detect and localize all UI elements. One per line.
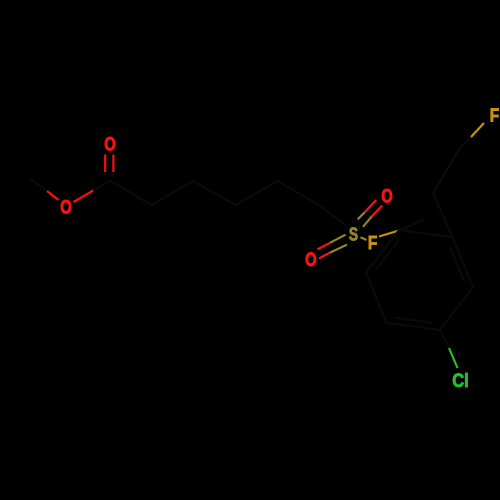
wire C-F top gold half <box>471 123 484 137</box>
F to ring C gold half <box>379 231 399 237</box>
wire fluoroethyl chain gray <box>433 137 471 237</box>
svg-text:Cl: Cl <box>452 371 469 392</box>
svg-text:O: O <box>305 250 317 271</box>
svg-text:O: O <box>381 187 393 208</box>
svg-text:O: O <box>104 135 116 156</box>
benzene ring lower right <box>366 230 473 330</box>
aromatic inner line upper-left edge <box>376 241 399 270</box>
carbonyl C=O double bond red halves <box>104 155 106 173</box>
wire ring to Cl gray half <box>440 330 449 348</box>
S=O upper double bond olive halves <box>358 212 365 219</box>
S=O upper double bond red halves <box>365 200 377 212</box>
S=O lower double bond red halves <box>317 243 330 250</box>
wire ring to Cl green half <box>449 348 458 368</box>
wire ester O to carbonyl C red half <box>74 191 94 203</box>
F to ring C gray half <box>399 219 425 231</box>
wire methyl C-O gray half <box>30 178 47 191</box>
svg-text:F: F <box>368 233 377 253</box>
wire ester O to carbonyl C gray half <box>93 181 110 191</box>
aromatic inner line bottom edge <box>396 318 432 323</box>
wire alkyl chain <box>110 181 345 225</box>
aromatic inner line right edge <box>450 248 464 282</box>
carbonyl C=O double bond gray halves <box>104 172 106 178</box>
svg-text:S: S <box>349 224 358 244</box>
S=O lower double bond olive halves <box>330 235 346 243</box>
S-F bond olive half <box>361 237 367 240</box>
svg-text:F: F <box>490 106 499 126</box>
wire methyl C-O red half <box>47 191 59 200</box>
svg-text:O: O <box>60 198 72 219</box>
